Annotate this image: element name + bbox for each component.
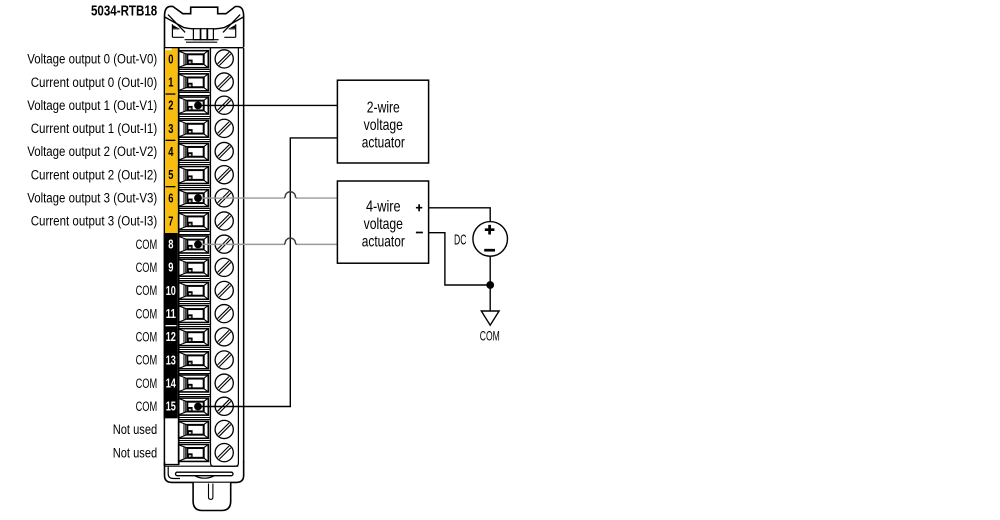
svg-text:COM: COM	[136, 353, 158, 368]
svg-text:COM: COM	[480, 328, 500, 344]
svg-text:Not used: Not used	[113, 445, 158, 460]
terminal number strip: black 8-15	[164, 233, 178, 418]
connection dot terminal 8	[194, 240, 202, 248]
separator band 12	[179, 348, 209, 350]
svg-text:COM: COM	[136, 237, 158, 252]
latch base bar	[185, 40, 219, 43]
svg-text:DC: DC	[454, 231, 466, 248]
latch right step	[224, 24, 235, 37]
separator band 7	[179, 232, 209, 235]
module 5034-RTB18 terminal block body	[164, 6, 244, 510]
bottom tab slot	[209, 484, 213, 500]
terminal 7 socket and screw	[179, 212, 234, 230]
separator band 14	[179, 395, 209, 397]
RTB top latch outline	[165, 6, 244, 47]
svg-text:COM: COM	[136, 330, 158, 345]
DC source circle	[473, 222, 508, 257]
svg-text:5034-RTB18: 5034-RTB18	[91, 4, 157, 20]
terminal 6 socket and screw	[179, 189, 234, 207]
svg-text:actuator: actuator	[362, 134, 405, 151]
svg-text:Voltage output 1 (Out-V1): Voltage output 1 (Out-V1)	[27, 98, 157, 113]
svg-text:0: 0	[168, 52, 173, 66]
svg-text:Voltage output 2 (Out-V2): Voltage output 2 (Out-V2)	[27, 144, 157, 159]
junction dot	[486, 281, 494, 289]
separator band 0	[179, 70, 209, 72]
module right edge	[243, 48, 245, 462]
terminal 3 socket and screw	[179, 119, 234, 137]
divider line above terminals	[164, 47, 244, 49]
svg-text:voltage: voltage	[364, 216, 403, 233]
terminal 4 socket and screw	[179, 142, 234, 160]
2-wire voltage actuator box	[337, 80, 428, 163]
terminal 12 socket and screw	[179, 328, 234, 346]
bottom shell	[165, 461, 244, 482]
wire hop over vertical run at terminal 6	[284, 192, 297, 198]
terminal 5 socket and screw	[179, 166, 234, 184]
terminal 1 socket and screw	[179, 73, 234, 91]
gray wire: terminal 6 to 4-wire actuator	[198, 197, 284, 199]
screw panel line with rounded bottom	[211, 48, 239, 467]
terminal 15 socket and screw	[179, 397, 234, 415]
gray wire: terminal 8 to 4-wire actuator	[198, 243, 284, 245]
svg-text:13: 13	[166, 353, 176, 367]
wire: 4-wire actuator plus to DC source	[429, 208, 491, 222]
separator band 10	[179, 302, 209, 304]
terminal 16 socket and screw	[179, 420, 234, 438]
strip right border / socket column left line	[178, 48, 180, 465]
svg-text:6: 6	[168, 191, 173, 205]
svg-text:Current output 0 (Out-I0): Current output 0 (Out-I0)	[31, 75, 158, 90]
connection dot terminal 15	[194, 403, 202, 411]
wire: junction to COM ground	[489, 285, 491, 311]
DC source plus	[485, 225, 495, 235]
separator band 2	[179, 117, 209, 119]
svg-text:4: 4	[168, 145, 173, 159]
terminal 14 socket and screw	[179, 374, 234, 392]
svg-text:Not used: Not used	[113, 422, 158, 437]
svg-text:14: 14	[166, 377, 176, 391]
latch inner diagonal left	[168, 15, 185, 33]
svg-text:Current output 3 (Out-I3): Current output 3 (Out-I3)	[31, 214, 158, 229]
bottom slot	[176, 472, 234, 476]
svg-text:9: 9	[168, 261, 173, 275]
socket column right line	[209, 48, 211, 463]
separator band 3	[179, 140, 209, 142]
module left edge	[163, 48, 165, 467]
wire: terminal 2 to 2-wire actuator	[198, 104, 337, 106]
bottom slot smile	[195, 476, 214, 478]
svg-text:8: 8	[168, 238, 173, 252]
svg-text:COM: COM	[136, 283, 158, 298]
bottom shell line	[165, 465, 239, 467]
svg-text:5: 5	[168, 168, 173, 182]
strip pair tick 1	[166, 139, 176, 141]
strip top white notch	[165, 48, 172, 50]
terminal 17 socket and screw	[179, 444, 234, 462]
COM ground triangle	[481, 311, 499, 325]
svg-text:12: 12	[166, 330, 176, 344]
svg-text:4-wire: 4-wire	[366, 199, 401, 216]
plus terminal mark	[416, 204, 422, 211]
separator band 13	[179, 371, 209, 374]
separator band 15	[179, 418, 209, 420]
latch left step	[172, 24, 183, 37]
minus terminal mark	[416, 232, 423, 234]
terminal number strip: yellow 0-7	[165, 48, 178, 233]
svg-text:7: 7	[168, 214, 173, 228]
svg-text:COM: COM	[136, 376, 158, 391]
svg-text:Current output 2 (Out-I2): Current output 2 (Out-I2)	[31, 167, 158, 182]
svg-text:Voltage output 3 (Out-V3): Voltage output 3 (Out-V3)	[27, 191, 157, 206]
strip pair tick 2	[166, 186, 176, 188]
bottom tab	[193, 483, 231, 511]
wire: 4-wire actuator minus to junction	[429, 233, 491, 285]
svg-text:COM: COM	[136, 399, 158, 414]
svg-text:COM: COM	[136, 306, 158, 321]
latch teeth	[193, 29, 200, 40]
terminal 10 socket and screw	[179, 281, 234, 299]
svg-text:3: 3	[168, 122, 173, 136]
svg-text:Voltage output 0 (Out-V0): Voltage output 0 (Out-V0)	[27, 52, 157, 67]
terminal 8 socket and screw	[179, 235, 234, 253]
separator band 16	[179, 441, 209, 443]
separator band 5	[179, 186, 209, 188]
terminal 13 socket and screw	[179, 351, 234, 369]
svg-text:11: 11	[166, 307, 176, 321]
svg-text:2: 2	[168, 99, 173, 113]
separator band 6	[179, 209, 209, 211]
strip pair tick white 11|12	[166, 325, 177, 327]
separator band 1	[179, 93, 209, 96]
separator band 11	[179, 325, 209, 327]
DC source minus	[484, 249, 495, 252]
svg-text:10: 10	[166, 284, 176, 298]
wire: 2-wire actuator to terminal 15 (vertical run)	[198, 138, 337, 407]
separator band 4	[179, 163, 209, 165]
latch inner diagonal right	[223, 15, 240, 33]
terminal 0 socket and screw	[179, 50, 234, 68]
4-wire voltage actuator box	[337, 181, 428, 263]
svg-text:Current output 1 (Out-I1): Current output 1 (Out-I1)	[31, 121, 158, 136]
terminal 11 socket and screw	[179, 305, 234, 323]
svg-text:1: 1	[168, 75, 173, 89]
svg-text:2-wire: 2-wire	[367, 100, 400, 117]
separator band 8	[179, 256, 209, 258]
strip white section 16-17	[164, 464, 179, 466]
wire: DC source to junction	[489, 256, 491, 285]
svg-text:15: 15	[166, 400, 176, 414]
connection dot terminal 2	[194, 102, 202, 110]
terminal 2 socket and screw	[179, 96, 234, 114]
strip pair tick 0	[166, 93, 176, 95]
latch lower wing edge	[165, 17, 244, 30]
svg-text:actuator: actuator	[362, 233, 405, 250]
bottom shell inner corner	[168, 467, 180, 479]
terminal 9 socket and screw	[179, 258, 234, 276]
separator band 9	[179, 279, 209, 281]
connection dot terminal 6	[194, 194, 202, 202]
wire hop over vertical run at terminal 8	[284, 238, 297, 244]
svg-text:voltage: voltage	[364, 117, 403, 134]
svg-text:COM: COM	[136, 260, 158, 275]
